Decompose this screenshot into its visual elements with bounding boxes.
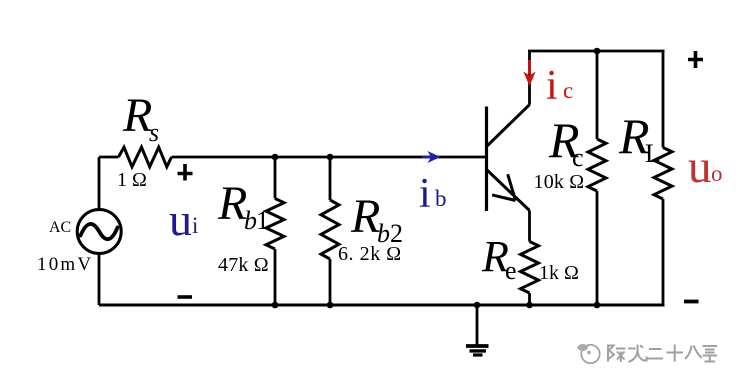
value 1k ohm [539, 262, 579, 284]
svg-text:b: b [435, 186, 447, 211]
wire top-left horizontal (Rs to base) [99, 156, 487, 159]
transistor Q1 collector lead [487, 105, 530, 146]
junction dot top Rc [594, 48, 601, 55]
wire Rb1 column [274, 157, 277, 305]
svg-text:R: R [217, 177, 247, 230]
current arrow ic (red) [523, 60, 535, 86]
svg-text:1k Ω: 1k Ω [539, 262, 579, 284]
label RL [618, 108, 661, 168]
svg-text:6. 2k Ω: 6. 2k Ω [338, 243, 402, 265]
svg-text:1: 1 [256, 206, 269, 235]
svg-text:c: c [563, 78, 573, 103]
transistor Q1 base bar [485, 107, 488, 212]
svg-text:i: i [419, 171, 431, 217]
label Rb1 [217, 177, 269, 235]
junction dot bottom Rb1 [272, 302, 279, 309]
svg-text:o: o [711, 161, 723, 186]
junction dot ground [474, 302, 481, 309]
label Rb2 [350, 190, 403, 248]
current arrow ib (blue) [422, 151, 441, 163]
junction dot Rc bottom [594, 302, 601, 309]
transistor Q1 emitter lead [487, 170, 530, 211]
label Rs [122, 89, 159, 147]
wire Rc column [596, 51, 599, 305]
polarity minus (ui) [178, 295, 193, 299]
svg-text:1 Ω: 1 Ω [117, 169, 147, 191]
svg-text:u: u [169, 194, 192, 245]
wire RL column [662, 51, 665, 306]
resistor Rb2 zigzag [321, 200, 339, 259]
watermark text [608, 345, 717, 363]
label ib (blue) [419, 171, 447, 217]
wire emitter vertical [528, 211, 531, 242]
value 1 ohm [117, 169, 147, 191]
wire top rail [528, 50, 665, 53]
wire collector vertical [528, 51, 531, 105]
svg-text:10mV: 10mV [37, 254, 93, 275]
resistor Rs zigzag [119, 147, 172, 167]
resistor Re zigzag [521, 242, 539, 294]
label ic (red) [546, 63, 573, 109]
watermark logo [577, 344, 599, 363]
ground [466, 305, 489, 355]
svg-text:u: u [688, 141, 712, 193]
wire Re bottom lead [528, 293, 531, 305]
label ui (blue) [169, 194, 198, 245]
AC source V1 circle [77, 210, 121, 254]
junction dot top Rb2 [327, 154, 334, 161]
svg-text:i: i [192, 213, 198, 238]
wire bottom rail [99, 304, 665, 307]
junction dot Re bottom [526, 302, 533, 309]
AC source sine symbol [81, 224, 118, 239]
label AC [49, 219, 71, 236]
value 10mV [37, 254, 93, 275]
label uo (red) [688, 141, 723, 193]
svg-text:L: L [645, 139, 661, 168]
label Rc [548, 112, 584, 172]
resistor Rc zigzag [588, 139, 606, 191]
value 6.2k ohm [338, 243, 402, 265]
polarity plus (ui) [178, 164, 193, 181]
svg-text:R: R [350, 190, 380, 243]
polarity minus (uo) [684, 300, 699, 304]
wire Rb2 column [329, 157, 332, 305]
junction dot top Rb1 [272, 154, 279, 161]
resistor Rb1 zigzag [266, 199, 284, 250]
svg-text:e: e [505, 256, 517, 285]
resistor RL zigzag [654, 148, 672, 200]
value 10k ohm [534, 171, 585, 193]
label Re [481, 232, 517, 285]
junction dot bottom Rb2 [327, 302, 334, 309]
value 47k ohm [218, 254, 269, 276]
polarity plus (uo) [688, 51, 703, 68]
svg-text:s: s [149, 118, 159, 147]
svg-text:i: i [546, 63, 558, 109]
svg-text:10k Ω: 10k Ω [534, 171, 585, 193]
svg-text:c: c [572, 143, 584, 172]
wire left vertical (source branch) [98, 157, 101, 305]
svg-text:R: R [122, 89, 152, 142]
svg-text:47k Ω: 47k Ω [218, 254, 269, 276]
transistor Q1 emitter arrow [492, 174, 515, 200]
svg-text:AC: AC [49, 219, 71, 236]
